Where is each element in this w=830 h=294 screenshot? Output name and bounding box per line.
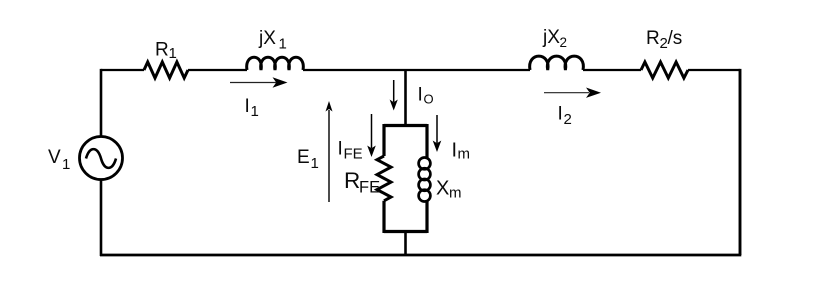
- wire left vertical lower: [100, 180, 103, 257]
- svg-text:I: I: [338, 139, 343, 160]
- shunt box top: [384, 124, 427, 127]
- svg-text:m: m: [449, 185, 462, 202]
- svg-text:I: I: [418, 85, 423, 106]
- arrow E1: [328, 110, 330, 202]
- svg-text:FE: FE: [359, 179, 380, 197]
- wire node A to jX2: [406, 69, 531, 71]
- svg-text:1: 1: [62, 156, 70, 173]
- svg-text:I: I: [452, 140, 458, 162]
- svg-text:I: I: [245, 96, 250, 117]
- svg-text:O: O: [424, 92, 434, 107]
- inductor Xm: [419, 158, 431, 202]
- svg-text:R: R: [646, 28, 660, 49]
- svg-text:R: R: [344, 168, 360, 193]
- shunt box bottom: [384, 230, 427, 233]
- branch RFE wire upper: [382, 124, 385, 156]
- wire top bus left segment: [101, 69, 144, 71]
- inductor jX2: [530, 56, 584, 70]
- svg-text:1: 1: [311, 155, 319, 172]
- wire left vertical upper: [100, 69, 103, 136]
- svg-text:I: I: [558, 104, 563, 125]
- arrow IFE: [371, 114, 373, 148]
- svg-text:2: 2: [564, 111, 572, 128]
- wire jX1 to node A: [303, 69, 406, 71]
- svg-text:jX: jX: [542, 27, 560, 48]
- wire R1 to jX1: [188, 69, 247, 71]
- branch Xm wire upper: [425, 124, 428, 158]
- svg-text:m: m: [458, 146, 471, 163]
- resistor R1: [144, 62, 188, 78]
- svg-text:jX: jX: [258, 28, 276, 49]
- svg-text:X: X: [436, 178, 449, 200]
- arrow Im: [436, 115, 438, 143]
- svg-text:R: R: [155, 40, 169, 61]
- branch RFE wire lower: [382, 201, 385, 233]
- svg-text:1: 1: [251, 103, 259, 120]
- wire right vertical: [739, 69, 742, 255]
- svg-text:/s: /s: [668, 28, 683, 49]
- inductor jX1: [247, 57, 304, 70]
- arrow I2: [544, 92, 589, 94]
- wire R2/s to right corner: [688, 69, 740, 71]
- resistor R2/s: [641, 62, 688, 78]
- resistor RFE: [377, 156, 391, 201]
- svg-text:1: 1: [169, 45, 177, 62]
- wire jX2 to R2/s: [583, 69, 641, 71]
- svg-text:V: V: [48, 147, 61, 168]
- source V1: [80, 137, 123, 180]
- wire node A to box top: [404, 70, 407, 126]
- arrow I0: [393, 80, 395, 102]
- branch Xm wire lower: [425, 200, 428, 233]
- wire box bottom to bottom bus: [404, 232, 407, 256]
- wire bottom bus: [100, 254, 741, 257]
- svg-text:1: 1: [279, 36, 287, 53]
- svg-text:2: 2: [560, 35, 568, 50]
- arrow I1: [230, 82, 276, 84]
- svg-text:FE: FE: [344, 146, 363, 163]
- svg-text:E: E: [297, 147, 310, 168]
